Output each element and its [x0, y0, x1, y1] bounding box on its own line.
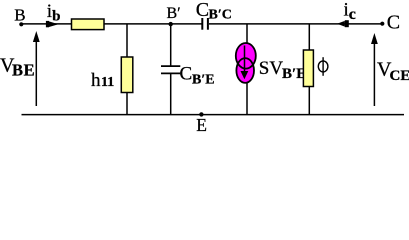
wire resistor phi top — [308, 24, 310, 51]
svg-text:B′C: B′C — [209, 7, 232, 22]
wire resistor phi bottom — [308, 87, 310, 115]
voltage arrow VCE — [373, 43, 375, 106]
capacitor CB'C plates — [201, 18, 203, 30]
svg-text:SV: SV — [259, 58, 284, 79]
svg-text:C: C — [387, 12, 400, 34]
current source S VB'E (two overlapping ellipses) — [236, 43, 256, 69]
svg-text:E: E — [196, 115, 207, 135]
resistor R (base) — [72, 19, 105, 30]
source arrow (downward) — [244, 46, 246, 73]
label phi — [318, 61, 328, 72]
wire top: capacitor to C — [209, 23, 382, 25]
node B — [19, 22, 23, 26]
svg-text:B′E: B′E — [192, 73, 215, 88]
svg-text:B: B — [14, 5, 25, 24]
wire h11 bottom — [126, 93, 128, 115]
wire current source top — [246, 24, 248, 44]
current arrow ic — [345, 20, 349, 27]
svg-text:11: 11 — [101, 75, 114, 90]
svg-text:C: C — [196, 0, 209, 21]
node C — [380, 22, 384, 26]
wire top: resistor to capacitor CB'C — [104, 23, 202, 25]
wire h11 top — [126, 24, 128, 58]
wire bottom (emitter rail) — [22, 114, 405, 116]
svg-text:C: C — [180, 64, 193, 85]
node E — [199, 112, 203, 116]
wire CB'E top — [170, 24, 172, 66]
current arrow ib — [46, 21, 49, 27]
voltage arrow VBE — [35, 40, 37, 106]
wire top: B to resistor — [21, 23, 72, 25]
resistor phi — [303, 50, 313, 87]
wire current source bottom — [246, 83, 248, 115]
capacitor CB'E plates — [161, 65, 180, 67]
svg-text:B′E: B′E — [282, 66, 306, 82]
wire CB'E bottom — [170, 74, 172, 115]
svg-text:B′: B′ — [167, 5, 181, 22]
svg-text:BE: BE — [12, 60, 35, 79]
resistor h11 — [121, 57, 133, 93]
svg-text:CE: CE — [390, 68, 409, 84]
node B' — [169, 22, 173, 26]
svg-text:h: h — [91, 70, 101, 91]
